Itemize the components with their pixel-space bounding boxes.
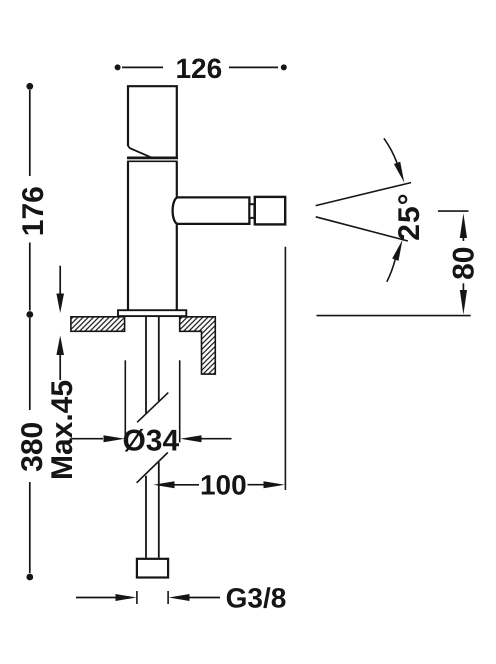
dim G3/8 arrow right	[169, 594, 190, 601]
dim G3/8 tick left	[136, 591, 138, 604]
dim 80 tail upper	[462, 234, 464, 241]
dim G3/8 tail right	[189, 597, 220, 599]
dim G3/8 tail left	[76, 597, 116, 599]
dim 80 tail lower	[462, 283, 464, 292]
spout	[173, 197, 250, 224]
pipe slash lower	[137, 453, 168, 483]
dim O34 tail right	[202, 438, 232, 440]
aerator	[255, 197, 285, 225]
dim 80 top tick	[438, 210, 469, 212]
connector nut	[137, 559, 168, 578]
countertop right	[180, 317, 216, 374]
body	[127, 161, 177, 310]
dim 176 dot top	[26, 83, 33, 90]
dim 80 arrow down	[460, 290, 467, 315]
dim 176 line upper	[29, 90, 31, 176]
svg-text:80: 80	[448, 247, 481, 280]
dim Max.45 arrow down line	[59, 266, 61, 294]
handle base thick line	[127, 157, 178, 160]
svg-text:25°: 25°	[393, 192, 426, 240]
dim 25 deg lower arc	[387, 259, 395, 282]
dim 100 extension line	[284, 247, 286, 490]
handle lever	[128, 86, 177, 157]
dim 25 deg lower arc arrow	[392, 240, 402, 261]
dim 100 arrow left	[154, 481, 175, 488]
dim G3/8 tick right	[167, 591, 169, 604]
dim O34 arrow left	[104, 435, 125, 442]
dim O34 extension left	[124, 360, 126, 442]
dim 176 line lower	[29, 243, 31, 311]
dim O34 arrow right	[180, 435, 201, 442]
dim 25 deg upper arc arrow	[394, 162, 404, 183]
base plate	[118, 310, 186, 316]
svg-text:380: 380	[16, 422, 49, 472]
dim 126 line left	[122, 66, 163, 68]
dim 25 deg upper arc	[384, 138, 397, 163]
svg-text:100: 100	[200, 470, 247, 501]
dim O34 extension right	[179, 360, 181, 442]
dim 25 deg upper line	[316, 183, 411, 206]
dim 380 dot bottom	[26, 574, 33, 581]
dim Max.45 arrow down head	[56, 294, 64, 314]
countertop left	[71, 317, 125, 332]
dim 126 line right	[229, 66, 278, 68]
dim 380 line lower	[29, 482, 31, 573]
dim 100 tail right	[248, 484, 265, 486]
dim Max.45 arrow up line	[59, 354, 61, 380]
dim G3/8 arrow left	[116, 594, 137, 601]
svg-text:176: 176	[17, 186, 50, 236]
svg-text:126: 126	[175, 53, 222, 84]
svg-text:Ø34: Ø34	[122, 425, 179, 458]
dim O34 tail left	[72, 438, 103, 440]
dim 25 deg lower line	[316, 217, 408, 241]
svg-text:G3/8: G3/8	[226, 583, 287, 614]
dim 380 line upper	[29, 318, 31, 410]
counter level line	[317, 315, 471, 317]
dim 100 arrow right	[264, 481, 285, 488]
dim 126 dot left	[115, 64, 121, 70]
pipe slash upper	[137, 393, 168, 423]
svg-text:Max.45: Max.45	[46, 380, 79, 480]
supply pipe	[146, 317, 159, 558]
dim 380 dot top	[26, 311, 33, 318]
dim Max.45 arrow up head	[56, 336, 64, 356]
dim 126 dot right	[281, 64, 287, 70]
dim 100 tail left	[174, 484, 199, 486]
spout neck	[249, 204, 254, 218]
dim 80 arrow up	[460, 213, 467, 238]
